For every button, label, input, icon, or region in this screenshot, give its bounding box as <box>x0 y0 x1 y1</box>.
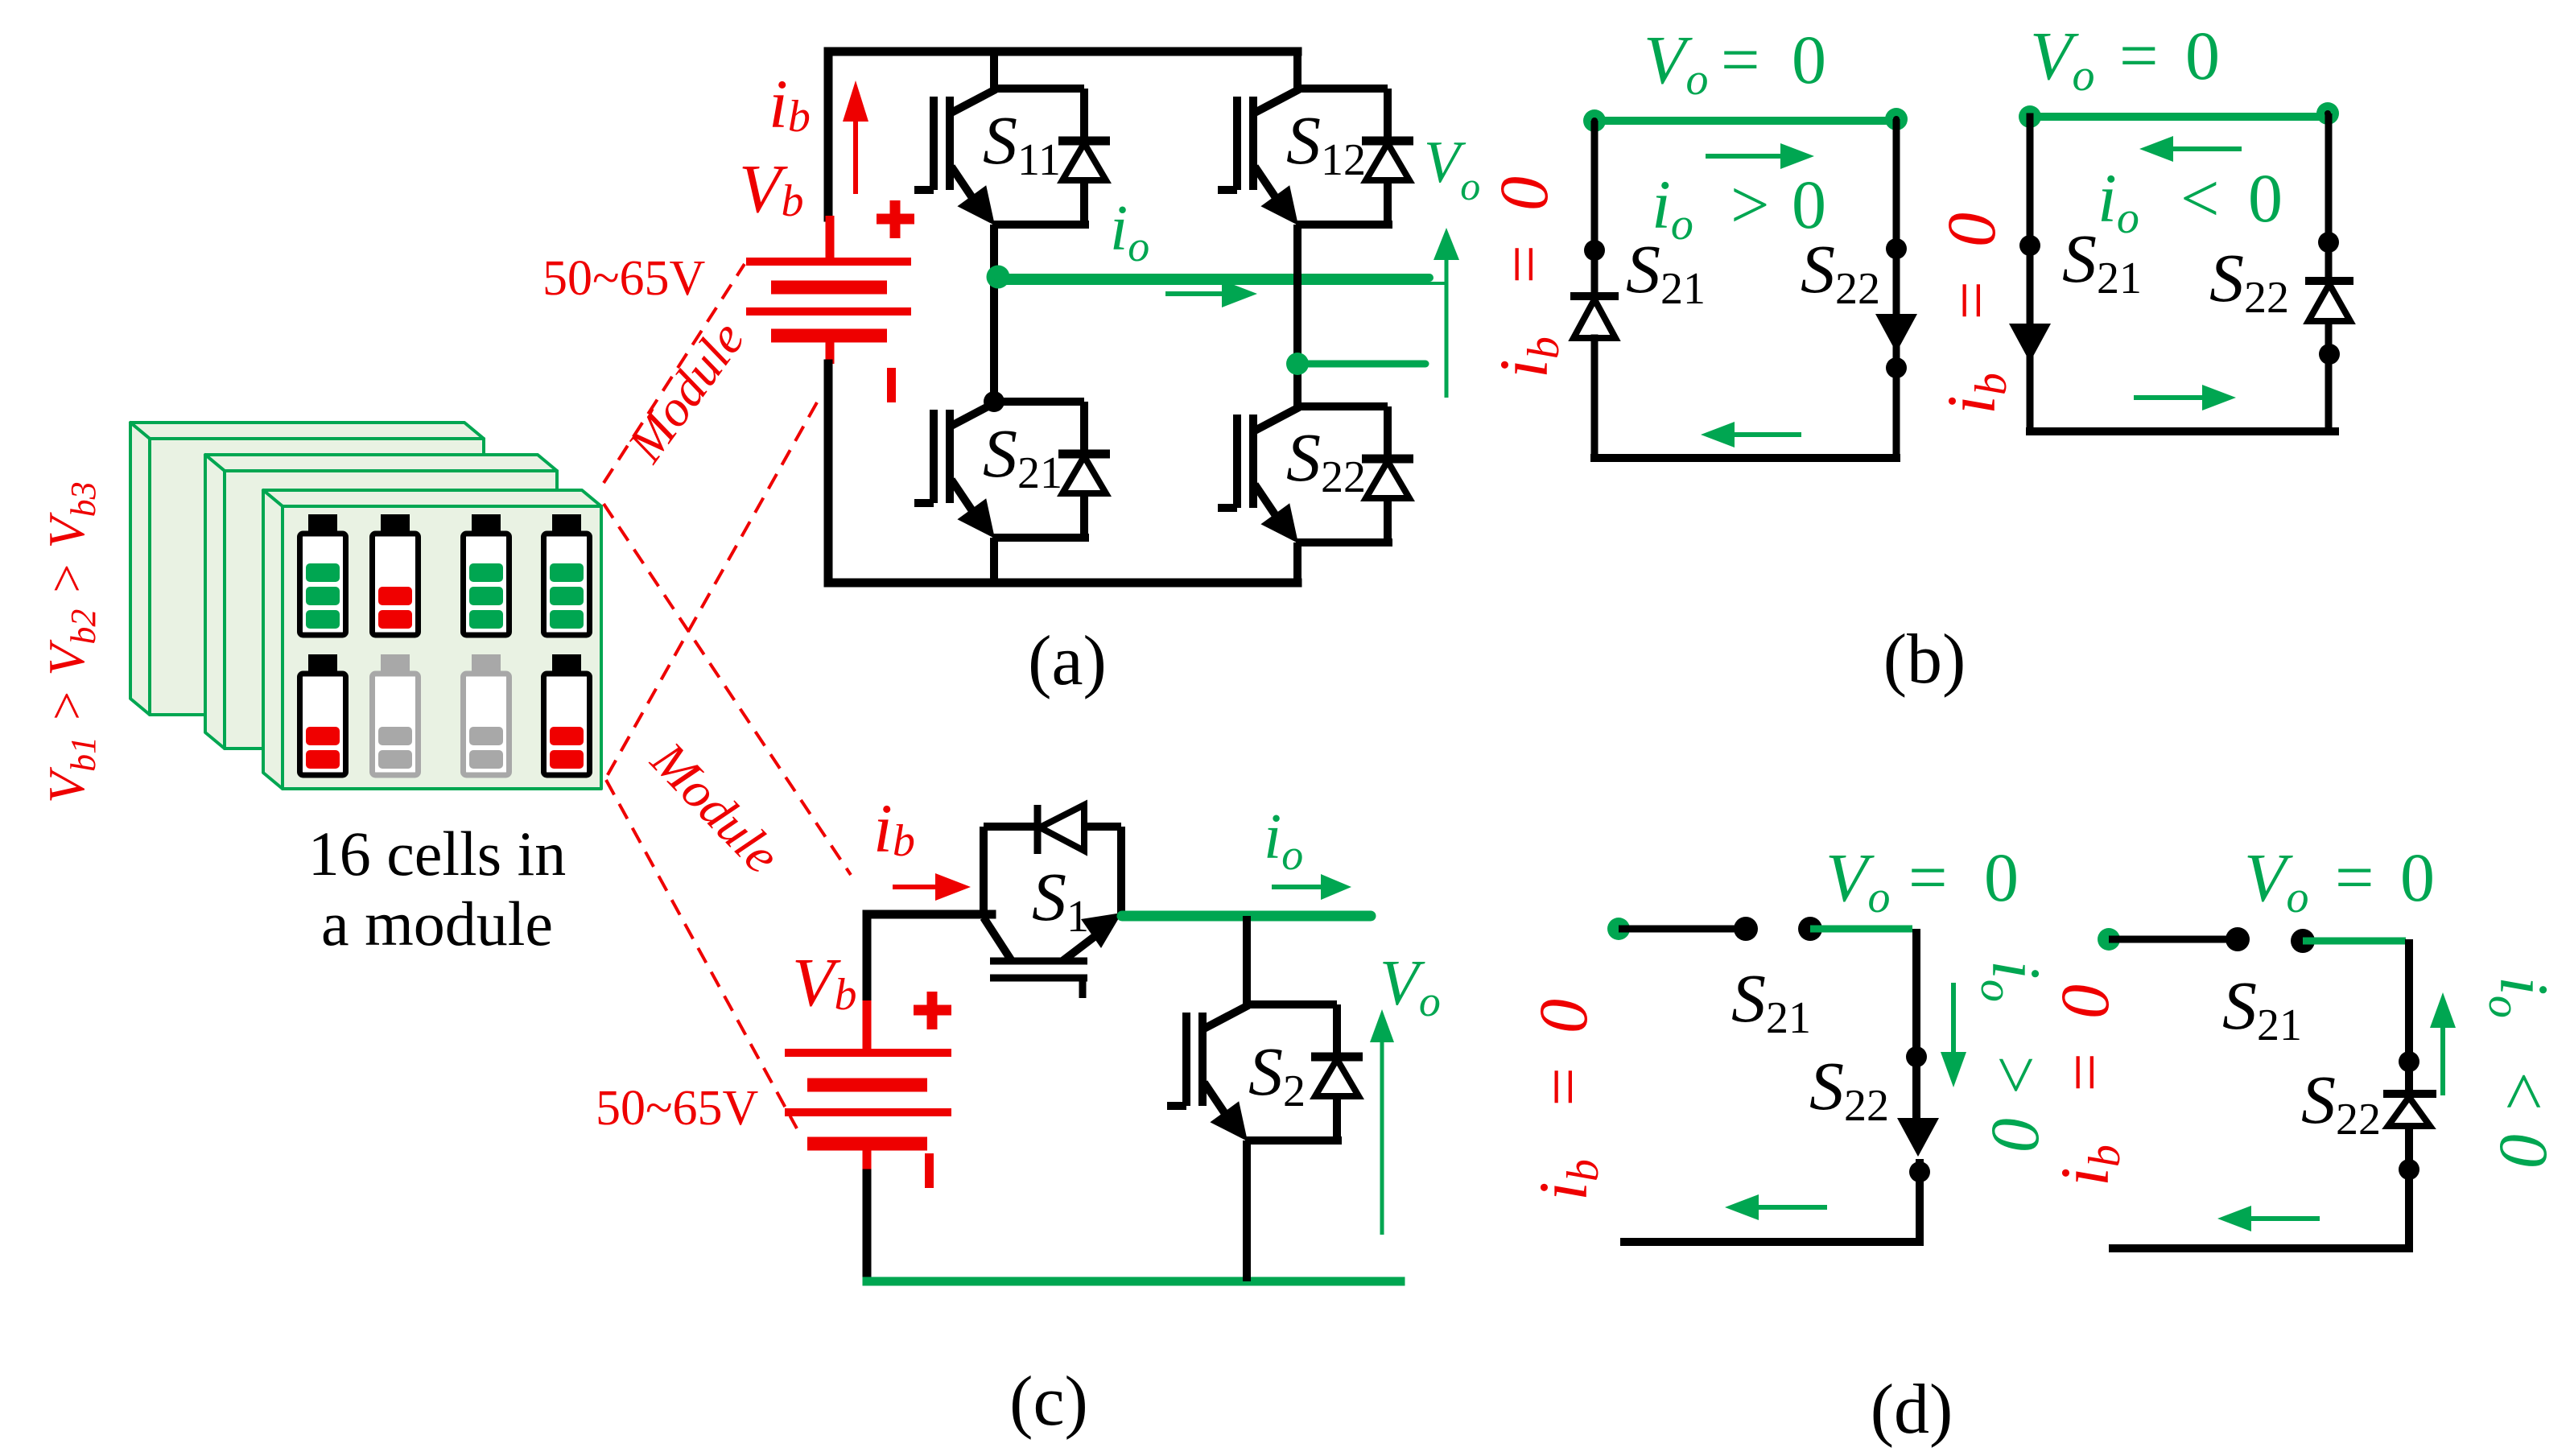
node left output (green dot) <box>987 266 1010 289</box>
D-left: node above S22 <box>1906 1046 1927 1067</box>
B-left: wire bottom <box>1594 454 1896 462</box>
svg-text:16 cells in: 16 cells in <box>308 819 567 889</box>
cell 1 full (green) <box>300 514 346 635</box>
wire left rail upper <box>824 52 833 217</box>
B-right: wire bottom <box>2030 427 2335 435</box>
cell 3 full (green) <box>464 514 509 635</box>
module panel 3 (back) <box>130 423 484 715</box>
B-right: arrow return right (green) <box>2134 395 2210 400</box>
B-right: S21 conduction arrow <box>2009 324 2051 362</box>
B-right: wire top (green) <box>2030 113 2328 121</box>
wire right leg top <box>1293 52 1302 89</box>
wire S2 collector drop <box>1243 916 1251 1004</box>
svg-text:Vo=0: Vo=0 <box>1644 21 1826 105</box>
transistor S2 <box>1167 1004 1363 1141</box>
D-left: wire to switch <box>1619 926 1746 933</box>
svg-text:Vo=0: Vo=0 <box>2030 17 2220 101</box>
D-right: arrow return left (green) <box>2243 1216 2320 1221</box>
wire left leg bottom <box>990 538 998 583</box>
dashed link module to battery (a) top <box>604 264 745 483</box>
arrow io right (green) <box>1165 291 1231 296</box>
arrow Vo up (green) <box>1445 250 1449 398</box>
transistor S1 (rotated IGBT) <box>984 805 1122 998</box>
D-left: arrow io down (green) <box>1951 983 1956 1058</box>
dashed link module to battery (a) bottom <box>605 402 817 779</box>
node S21 collector junction <box>984 391 1004 412</box>
svg-text:a module: a module <box>321 889 553 959</box>
D-right: node source (green) <box>2098 928 2120 951</box>
B-left: node below S22 <box>1886 357 1907 378</box>
battery VB (a) <box>746 216 911 364</box>
D-right: wire bottom <box>2113 1244 2409 1252</box>
module panel 1 (front) <box>263 490 601 789</box>
wire output lower (green) <box>1297 361 1425 368</box>
svg-text:(a): (a) <box>1028 622 1107 700</box>
B-left: S22 conduction arrow <box>1875 314 1917 353</box>
wire S2 emitter down <box>1243 1140 1251 1281</box>
svg-text:(b): (b) <box>1883 621 1966 699</box>
D-left: wire Vo stub (green) <box>1810 926 1912 933</box>
B-left: node top-right <box>1885 108 1908 130</box>
B-right: wire left branch S21 <box>2027 117 2034 431</box>
D-right: wire S22 branch <box>2405 939 2413 1246</box>
D-right: diode S22 <box>2383 1090 2436 1098</box>
B-left: node top-left <box>1583 109 1606 132</box>
svg-text:(d): (d) <box>1871 1371 1953 1449</box>
D-left: wire bottom <box>1624 1238 1920 1246</box>
B-left: node above S22 <box>1886 238 1907 259</box>
arrow Vo up (green) <box>1380 1038 1384 1235</box>
cell 5 low (red) <box>300 654 346 775</box>
wire bottom rail (green) <box>867 1277 1401 1286</box>
wire left rail lower <box>824 364 833 583</box>
cell 7 mid (gray) <box>464 654 509 775</box>
cell 4 full (green) <box>544 514 590 635</box>
D-left: node source (green) <box>1607 918 1630 940</box>
B-left: arrow io right (green) <box>1706 154 1788 159</box>
minus sign battery (a) <box>887 368 896 402</box>
B-right: node top-right <box>2316 102 2339 125</box>
B-left: wire left branch <box>1591 121 1599 296</box>
B-left: arrow return left (green) <box>1726 432 1801 437</box>
D-left: wire S22 branch <box>1916 929 1920 1242</box>
D-right: arrow io up (green) <box>2440 1022 2445 1095</box>
B-right: wire right branch <box>2325 113 2333 431</box>
B-right: node above S21 <box>2019 235 2040 256</box>
D-right: wire Vo stub (green) <box>2303 938 2406 945</box>
B-right: node above diode S22 <box>2318 232 2339 253</box>
transistor S21 <box>914 402 1110 538</box>
wire output upper thin extension (green) <box>1000 282 1446 285</box>
wire left leg top <box>990 52 998 89</box>
svg-text:50~65V: 50~65V <box>542 251 706 306</box>
wire left leg middle <box>990 225 998 402</box>
D-left: switch S21 open contacts <box>1734 917 1758 941</box>
B-right: diode S22 <box>2305 277 2353 285</box>
B-left: diode S21 <box>1570 292 1619 300</box>
wire input from battery <box>867 914 992 1002</box>
B-left: wire right branch S22 <box>1893 119 1900 458</box>
D-left: arrow return left (green) <box>1751 1205 1827 1210</box>
battery VB (c) <box>785 1000 951 1175</box>
dashed link module to circuit (c) input <box>604 504 851 875</box>
B-right: node below diode <box>2319 344 2340 365</box>
B-left: wire top (green) <box>1594 117 1896 125</box>
module panel 2 (middle) <box>205 455 557 749</box>
wire battery negative down <box>863 1173 872 1281</box>
svg-text:Vo=0: Vo=0 <box>2244 839 2435 922</box>
B-left: wire below diode <box>1591 338 1599 458</box>
node right output (green dot) <box>1286 353 1309 375</box>
wire top rail <box>828 47 1297 56</box>
svg-text:(c): (c) <box>1009 1363 1088 1441</box>
svg-text:Vo=0: Vo=0 <box>1825 839 2019 922</box>
D-left: S22 conduction arrow <box>1897 1118 1939 1157</box>
D-right: switch S21 open contacts <box>2226 927 2250 951</box>
minus sign battery (c) <box>925 1153 934 1188</box>
dashed link module to battery (c) <box>606 780 797 1128</box>
wire right leg middle <box>1293 225 1302 406</box>
cell 8 low (red) <box>544 654 590 775</box>
plus sign battery (c) <box>914 992 951 1029</box>
svg-text:50~65V: 50~65V <box>596 1081 759 1136</box>
cell 6 mid (gray) <box>373 654 419 775</box>
wire output (green) <box>1122 911 1371 922</box>
B-left: node above diode S21 <box>1584 240 1605 261</box>
wire output upper (green) <box>998 274 1429 282</box>
transistor S22 <box>1218 406 1413 543</box>
D-right: wire to switch <box>2109 936 2238 943</box>
transistor S12 <box>1218 89 1413 225</box>
plus sign battery (a) <box>877 200 914 238</box>
arrow io right (green) <box>1272 885 1326 889</box>
arrow ib right (red) <box>893 885 942 889</box>
wire right leg bottom <box>1293 542 1302 583</box>
D-left: node below arrow <box>1909 1161 1930 1182</box>
transistor S11 <box>914 89 1110 225</box>
cell 2 low (red) <box>373 514 419 635</box>
D-right: node below diode <box>2399 1159 2419 1180</box>
B-right: arrow io left (green) <box>2165 146 2242 151</box>
arrow ib up (red) <box>853 109 858 194</box>
B-right: node top-left <box>2019 105 2041 128</box>
D-right: node above diode <box>2399 1051 2419 1072</box>
wire bottom rail <box>828 579 1297 588</box>
